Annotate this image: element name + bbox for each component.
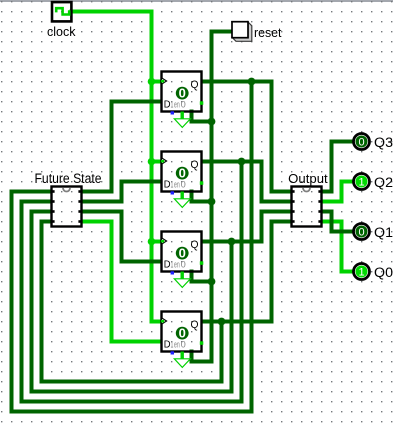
svg-text:Q0: Q0 (374, 265, 393, 280)
svg-text:Q: Q (191, 79, 199, 91)
svg-text:0: 0 (179, 246, 186, 261)
svg-text:1: 1 (358, 177, 364, 189)
svg-text:0: 0 (179, 166, 186, 181)
svg-text:reset: reset (254, 26, 282, 40)
svg-text:en: en (174, 260, 180, 271)
svg-text:Q1: Q1 (374, 225, 393, 240)
svg-text:Q: Q (191, 239, 199, 251)
svg-text:0: 0 (181, 180, 186, 191)
svg-text:0: 0 (181, 100, 186, 111)
svg-text:0: 0 (358, 227, 364, 239)
svg-text:Q3: Q3 (374, 135, 393, 150)
svg-text:clock: clock (47, 24, 76, 39)
svg-text:0: 0 (358, 137, 364, 149)
svg-text:1: 1 (171, 100, 174, 111)
svg-text:0: 0 (179, 326, 186, 341)
svg-text:en: en (174, 340, 180, 351)
svg-text:Q: Q (191, 159, 199, 171)
svg-text:0: 0 (181, 260, 186, 271)
svg-text:1: 1 (171, 260, 174, 271)
svg-text:en: en (174, 180, 180, 191)
svg-text:Future State: Future State (35, 171, 102, 186)
svg-text:en: en (174, 100, 180, 111)
svg-text:Output: Output (288, 171, 328, 186)
svg-text:Q2: Q2 (374, 175, 393, 190)
svg-text:1: 1 (171, 340, 174, 351)
svg-text:1: 1 (171, 180, 174, 191)
svg-text:0: 0 (179, 86, 186, 101)
svg-text:1: 1 (358, 267, 364, 279)
svg-text:Q: Q (191, 319, 199, 331)
svg-text:0: 0 (181, 340, 186, 351)
